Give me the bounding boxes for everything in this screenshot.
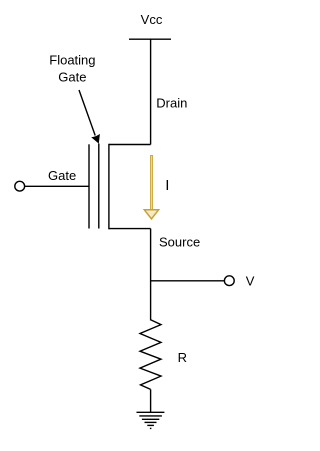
wire channel-to-source <box>109 228 151 230</box>
svg-text:Drain: Drain <box>156 96 187 111</box>
wire resistor to ground <box>150 389 152 412</box>
transistor Q1 channel <box>108 144 110 230</box>
wire output V <box>151 280 224 282</box>
wire gate <box>25 185 89 187</box>
resistor R1 <box>140 320 161 390</box>
svg-text:Floating: Floating <box>49 53 95 68</box>
svg-text:I: I <box>165 177 169 194</box>
terminal output V <box>224 276 234 286</box>
transistor Q1 gate plate <box>88 144 90 228</box>
svg-text:Source: Source <box>159 235 200 250</box>
svg-text:Gate: Gate <box>58 70 86 85</box>
terminal gate input <box>15 181 25 191</box>
current arrow I <box>150 155 153 210</box>
ground <box>137 411 165 413</box>
wire drain (Vcc rail to transistor) <box>150 39 152 144</box>
svg-text:Vcc: Vcc <box>141 12 163 27</box>
svg-text:V: V <box>246 274 255 289</box>
svg-text:R: R <box>178 350 187 365</box>
wire source (transistor to resistor) <box>150 229 152 321</box>
svg-text:Gate: Gate <box>48 168 76 183</box>
transistor Q1 floating gate plate <box>98 144 100 229</box>
wire drain-to-channel <box>109 144 151 146</box>
annotation arrow to floating gate <box>79 90 95 136</box>
power rail Vcc <box>129 38 171 40</box>
